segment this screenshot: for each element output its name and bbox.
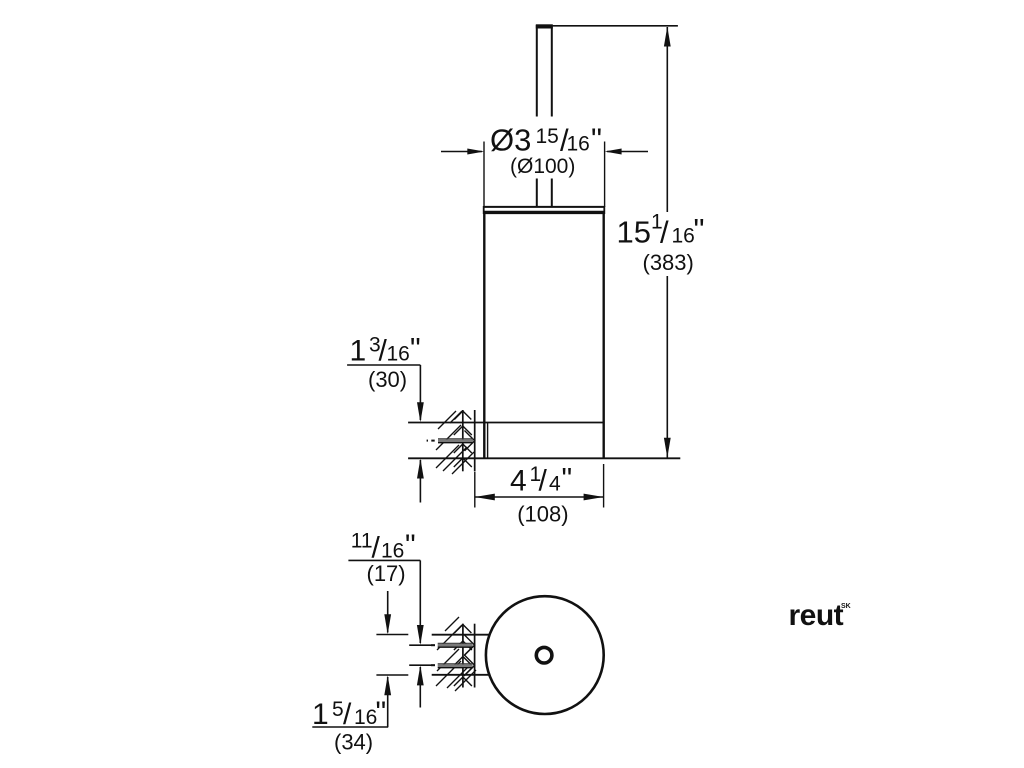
svg-text:(17): (17)	[367, 561, 406, 586]
svg-text:(108): (108)	[517, 502, 568, 527]
svg-text:": "	[405, 529, 416, 562]
svg-text:4: 4	[549, 473, 561, 496]
svg-text:4: 4	[510, 465, 527, 498]
svg-text:": "	[591, 122, 602, 157]
svg-text:1: 1	[350, 335, 367, 368]
svg-text:(Ø100): (Ø100)	[510, 155, 575, 178]
svg-text:16: 16	[381, 540, 404, 563]
svg-text:15: 15	[536, 125, 559, 148]
svg-text:Ø3: Ø3	[490, 123, 531, 158]
svg-text:16: 16	[387, 343, 410, 366]
svg-text:": "	[562, 463, 573, 496]
svg-text:": "	[376, 696, 387, 729]
svg-text:1: 1	[312, 698, 329, 731]
svg-text:reut: reut	[789, 599, 844, 632]
svg-text:11: 11	[351, 530, 373, 553]
svg-text:15: 15	[617, 215, 651, 250]
svg-text:16: 16	[354, 706, 377, 729]
svg-text:/: /	[343, 698, 352, 731]
svg-text:(30): (30)	[368, 367, 407, 392]
svg-text:/: /	[539, 465, 548, 498]
svg-text:5: 5	[332, 698, 344, 721]
svg-text:(383): (383)	[643, 250, 694, 275]
svg-text:16: 16	[672, 225, 695, 248]
svg-text:16: 16	[567, 133, 590, 156]
svg-text:": "	[694, 212, 705, 247]
svg-text:SK: SK	[841, 603, 851, 610]
svg-text:/: /	[660, 215, 669, 250]
svg-text:": "	[410, 333, 421, 366]
svg-text:/: /	[372, 532, 381, 565]
svg-text:(34): (34)	[334, 730, 373, 755]
